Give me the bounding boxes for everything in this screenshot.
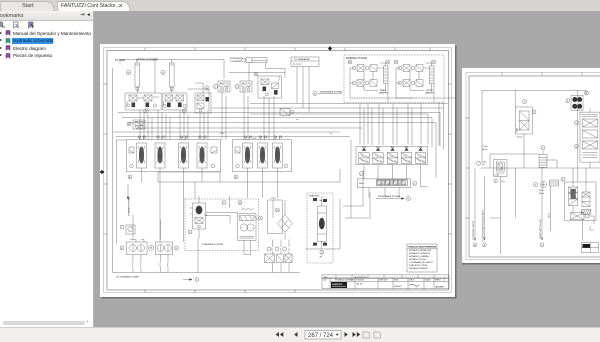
bus line h7 bbox=[113, 131, 340, 133]
frame outer bbox=[466, 72, 600, 259]
filter drops bbox=[273, 240, 290, 273]
balloon 8 bbox=[561, 177, 565, 181]
balloon 8b bbox=[222, 201, 226, 205]
svg-text:TO BRAKE SYSTEM: TO BRAKE SYSTEM bbox=[128, 197, 131, 216]
balloon 21 bbox=[161, 70, 165, 74]
right side verticals bbox=[428, 113, 440, 178]
balloon 11 bbox=[320, 250, 324, 254]
damper group B wires bbox=[396, 68, 459, 98]
pressure gauge circle bbox=[476, 161, 487, 166]
wire damping drops bbox=[388, 84, 444, 150]
main valve bank 1 outer bbox=[127, 140, 221, 172]
svg-text:TO SPREADER: TO SPREADER bbox=[294, 58, 310, 61]
svg-text:29: 29 bbox=[432, 62, 435, 64]
center accumulator bbox=[539, 150, 547, 167]
tank bottom line bbox=[113, 272, 300, 274]
balloon 7 bbox=[541, 145, 545, 149]
bank3 valve 1 bbox=[359, 146, 369, 163]
balloon C2 bbox=[235, 85, 239, 89]
main gray area bbox=[94, 11, 600, 327]
svg-text:COD: COD bbox=[323, 280, 328, 282]
svg-text:HYDRAULIC SCHEMATIC: HYDRAULIC SCHEMATIC bbox=[335, 279, 356, 282]
registration diamond top bbox=[328, 46, 332, 51]
svg-text:G: G bbox=[288, 249, 290, 251]
damper group B valve b2 bbox=[398, 80, 423, 86]
cluster wires bbox=[515, 168, 586, 218]
tiny labels band bbox=[220, 119, 332, 140]
bank3 valve 4 bbox=[401, 146, 411, 163]
svg-text:FROM PUMP TO FLOW: FROM PUMP TO FLOW bbox=[539, 219, 541, 239]
STEERING SYSTEM dashed box bbox=[185, 199, 259, 251]
balloon 22 bbox=[144, 109, 148, 113]
svg-text:OIL HYDRAULIC TANK: OIL HYDRAULIC TANK bbox=[116, 276, 139, 279]
wires lower left bbox=[474, 168, 551, 254]
svg-text:SLEWING EXTENSION: SLEWING EXTENSION bbox=[409, 268, 428, 270]
steering drops bbox=[198, 239, 251, 273]
svg-text:TO JOYSTICK AND SOLENOID VALVE: TO JOYSTICK AND SOLENOID VALVE bbox=[481, 209, 484, 242]
pump drop wires bbox=[133, 255, 168, 263]
bank3 valve 2 bbox=[373, 146, 383, 163]
svg-text:2: 2 bbox=[494, 180, 495, 182]
svg-text:7.5 bar: 7.5 bar bbox=[482, 145, 488, 148]
relief valve RV1 bbox=[515, 107, 532, 168]
notes box bbox=[407, 244, 437, 272]
start tab bbox=[0, 1, 55, 12]
svg-text:26: 26 bbox=[349, 62, 352, 64]
bank3 lower box bbox=[357, 179, 410, 188]
svg-text:TAV./SHEET: TAV./SHEET bbox=[435, 286, 444, 289]
port circle B bbox=[482, 242, 486, 246]
svg-text:a b: a b bbox=[296, 119, 298, 121]
svg-text:Y2: Y2 bbox=[380, 161, 382, 163]
flow meter circle bbox=[539, 180, 559, 195]
damper group A accumulator bbox=[380, 63, 388, 84]
svg-text:TO CONTROL CIRCUIT: TO CONTROL CIRCUIT bbox=[472, 219, 474, 239]
balloon hp bbox=[493, 179, 497, 183]
bus line h4 bbox=[122, 117, 432, 119]
balloon 3 bbox=[565, 98, 569, 102]
corner mark bbox=[590, 226, 594, 230]
bus line h5 bbox=[128, 122, 436, 124]
svg-text:DAMPER: DAMPER bbox=[425, 92, 434, 95]
pump group 2 bbox=[156, 242, 173, 255]
title block bbox=[322, 278, 449, 289]
bus line h1 bbox=[250, 103, 448, 105]
wires bank3 drops bbox=[364, 165, 421, 198]
svg-text:DWG UNIT: DWG UNIT bbox=[379, 280, 388, 282]
wire long vertical bbox=[576, 90, 578, 182]
svg-text:HYDRAULIC LIFTING: HYDRAULIC LIFTING bbox=[409, 258, 427, 261]
balloon 27 bbox=[394, 60, 398, 64]
svg-text:F: F bbox=[280, 249, 282, 251]
filter port circles bbox=[267, 247, 290, 251]
main valve bank 2 outer bbox=[233, 140, 292, 172]
svg-text:38 bar: 38 bar bbox=[359, 182, 364, 185]
svg-text:4=2: 4=2 bbox=[481, 164, 484, 166]
label 7.5 bar bbox=[482, 145, 488, 151]
svg-text:27: 27 bbox=[395, 62, 398, 64]
balloon 1 bbox=[522, 99, 526, 103]
wire bank1 to lower bbox=[142, 168, 278, 198]
balloon C1 bbox=[214, 85, 218, 89]
port circle A bbox=[473, 242, 477, 246]
balloon 23 bbox=[182, 109, 186, 113]
lower valve cluster box bbox=[564, 182, 596, 221]
frame tick marks bbox=[104, 48, 452, 293]
pump group 1 bbox=[127, 240, 148, 255]
hand pump valve bbox=[493, 159, 506, 182]
bank1 end details bbox=[129, 147, 217, 168]
coupling H bbox=[148, 245, 153, 250]
balloon D bbox=[413, 181, 417, 185]
steering wire bbox=[206, 196, 238, 224]
svg-text:45 l/m: 45 l/m bbox=[220, 133, 225, 135]
svg-text:CHK D: CHK D bbox=[409, 280, 415, 282]
main bus line bbox=[480, 167, 600, 169]
valve cluster C2 bbox=[240, 81, 252, 92]
svg-text:Y5: Y5 bbox=[422, 161, 424, 163]
svg-text:SCALE: SCALE bbox=[425, 279, 431, 282]
svg-text:25: 25 bbox=[255, 74, 258, 76]
port circle C bbox=[540, 242, 544, 246]
svg-text:Y4: Y4 bbox=[408, 161, 410, 163]
svg-text:FROM BRAKE SYSTEM: FROM BRAKE SYSTEM bbox=[320, 91, 342, 94]
routing step lines right bbox=[305, 170, 363, 249]
balloon 8 bbox=[188, 230, 192, 234]
wire to extension bbox=[178, 60, 224, 79]
balloon 10 bbox=[275, 208, 279, 212]
damper group A valve a2 bbox=[352, 80, 377, 86]
bus line h6 bbox=[136, 114, 428, 128]
svg-text:EXTENSION: EXTENSION bbox=[230, 58, 243, 60]
svg-text:14 bar: 14 bar bbox=[494, 173, 499, 176]
drain arrow bbox=[183, 278, 199, 282]
gearbox accumulator bbox=[313, 196, 327, 249]
balloon 28 bbox=[386, 60, 390, 64]
svg-text:2: 2 bbox=[140, 263, 142, 267]
balloon C bbox=[360, 172, 364, 176]
balloon B bbox=[234, 175, 238, 179]
svg-text:STEERING SYSTEM: STEERING SYSTEM bbox=[202, 244, 223, 246]
labels 2 2 bbox=[132, 263, 169, 267]
frame outer bbox=[104, 48, 452, 293]
frame ticks bbox=[466, 72, 582, 218]
svg-text:30: 30 bbox=[128, 124, 131, 126]
svg-text:HYDRAULIC EXTENSION: HYDRAULIC EXTENSION bbox=[409, 252, 430, 255]
left frame long wire bbox=[112, 68, 114, 273]
balloon 25 bbox=[254, 72, 258, 76]
balloon 4 bbox=[584, 91, 588, 95]
page 2 bbox=[462, 68, 600, 264]
bank3 lower cartridges bbox=[377, 180, 408, 186]
DAMPING SYSTEM dashed box bbox=[344, 55, 444, 103]
svg-text:FANTUZZI: FANTUZZI bbox=[332, 283, 342, 286]
svg-text:SHEET: SHEET bbox=[435, 280, 441, 282]
GEAR BOX dashed box bbox=[307, 193, 333, 263]
balloon A bbox=[128, 175, 132, 179]
bank1 spool 1 bbox=[137, 136, 147, 168]
svg-text:4/2: 4/2 bbox=[320, 257, 323, 259]
wire verticals spreader bbox=[297, 79, 309, 113]
svg-text:02/L/2007: 02/L/2007 bbox=[394, 286, 402, 288]
label TO BRAKE SYSTEM vertical bbox=[127, 184, 131, 216]
svg-text:2: 2 bbox=[132, 263, 134, 267]
balloon 26 bbox=[348, 60, 352, 64]
balloon 2 bbox=[532, 110, 536, 114]
svg-text:SIGN: SIGN bbox=[394, 280, 399, 282]
bank1 spool 4 bbox=[197, 136, 207, 168]
bank1 spool 3 bbox=[179, 136, 189, 168]
svg-text:THIRD HYDR. LIFTING: THIRD HYDR. LIFTING bbox=[409, 265, 428, 267]
svg-text:FROM BRAKE SYSTEM: FROM BRAKE SYSTEM bbox=[378, 195, 400, 198]
valve cluster C1 bbox=[218, 81, 230, 92]
pump suction lines bbox=[133, 215, 168, 273]
right valve assembly bbox=[580, 108, 600, 168]
balloon 4 bbox=[120, 246, 124, 250]
wire top header line bbox=[120, 60, 178, 94]
bank3 valve 3 bbox=[387, 146, 397, 163]
balloon 7 bbox=[120, 225, 124, 229]
balloon 29 bbox=[432, 60, 436, 64]
svg-text:REAR: REAR bbox=[380, 89, 386, 92]
top tab bar bbox=[0, 0, 600, 12]
bottom toolbar bbox=[0, 327, 600, 342]
filter unit box bbox=[268, 197, 283, 234]
bus line 2 bbox=[490, 154, 557, 168]
frame inner bbox=[469, 76, 600, 257]
svg-text:p t: p t bbox=[330, 132, 332, 135]
bus line h3 bbox=[118, 112, 440, 114]
frame inner bbox=[107, 51, 449, 291]
extension cylinder bbox=[229, 58, 285, 81]
wire bank3 left vertical bbox=[351, 140, 428, 218]
steering orbitrol unit bbox=[190, 196, 208, 239]
svg-text:267 / 724: 267 / 724 bbox=[308, 333, 334, 339]
bus line h8 bbox=[116, 136, 350, 138]
damper group B accumulator bbox=[426, 63, 434, 84]
title block p2 bbox=[581, 242, 598, 252]
balloon 5 bbox=[175, 246, 179, 250]
valve assembly V2 (under cylinder 2) bbox=[162, 93, 187, 110]
bank3 valve 5 bbox=[415, 146, 425, 163]
svg-text:P1 T1 P2: P1 T1 P2 bbox=[293, 64, 302, 66]
manifold under bank1 bbox=[158, 172, 220, 182]
svg-text:E: E bbox=[272, 249, 274, 251]
svg-text:CYLINDER: CYLINDER bbox=[230, 61, 241, 63]
bottom wire bbox=[581, 220, 583, 241]
bookmark list bbox=[0, 0, 93, 342]
svg-text:DAMPING SYSTEM: DAMPING SYSTEM bbox=[346, 57, 367, 60]
svg-text:1 bar: 1 bar bbox=[271, 197, 276, 200]
filter cartridges row bbox=[265, 254, 293, 263]
valve block VB1 (middle tall) bbox=[188, 83, 211, 113]
svg-text:Y1: Y1 bbox=[366, 161, 368, 163]
bus line h2 bbox=[212, 107, 444, 109]
svg-text:HYDRAULIC LOWERING: HYDRAULIC LOWERING bbox=[409, 255, 430, 258]
balloon 8c bbox=[238, 201, 242, 205]
routing rect mid bbox=[195, 169, 340, 199]
FANTUZZI logo bbox=[331, 282, 347, 288]
cluster valve A bbox=[568, 187, 577, 206]
sidebar bbox=[0, 11, 94, 327]
lifting cylinder 1 bbox=[135, 63, 140, 93]
filter diamond bbox=[273, 200, 293, 240]
balloon 30 bbox=[127, 122, 131, 126]
svg-text:HYDRAULIC RETRACTION: HYDRAULIC RETRACTION bbox=[409, 249, 432, 252]
balloon 24 bbox=[205, 86, 209, 90]
registration diamond left bbox=[100, 170, 105, 174]
left frame wire 2 bbox=[117, 140, 127, 244]
valve assembly V1 (under cylinder 1) bbox=[125, 93, 162, 110]
TO SPREADER box bbox=[291, 57, 319, 79]
svg-text:28: 28 bbox=[386, 62, 389, 64]
wires lower drops to tank bbox=[142, 182, 184, 243]
lifting cylinder 2 bbox=[170, 63, 175, 93]
sidebar toolbar icons bbox=[0, 21, 40, 30]
small relief valve RL1 bbox=[133, 120, 145, 129]
active document tab bbox=[56, 1, 130, 13]
svg-text:GEAR BOX: GEAR BOX bbox=[309, 195, 320, 198]
svg-text:35 l/m: 35 l/m bbox=[539, 192, 544, 194]
svg-text:2: 2 bbox=[159, 263, 161, 267]
FROM BRAKE SYSTEM arrow bbox=[313, 91, 342, 96]
svg-text:H: H bbox=[150, 247, 152, 250]
solenoid block top right bbox=[571, 95, 583, 110]
wire drops mid bbox=[222, 92, 274, 140]
bank2 spool 1 bbox=[243, 136, 253, 168]
svg-text:9 bar: 9 bar bbox=[319, 199, 323, 202]
revision strip bbox=[322, 275, 449, 279]
bank2 spool 2 bbox=[258, 136, 268, 168]
damper group A valve a1 bbox=[352, 65, 377, 71]
wire drops right bank bbox=[360, 104, 421, 146]
damper group B valve b1 bbox=[398, 65, 423, 71]
svg-text:A: A bbox=[129, 176, 131, 179]
wire drops group2 bbox=[180, 110, 208, 140]
svg-text:IDRAULIC DATA FOREWORD: IDRAULIC DATA FOREWORD bbox=[409, 246, 437, 249]
damper group A wires bbox=[350, 68, 413, 98]
balloon 5 bbox=[574, 120, 578, 124]
valve cluster C3 bbox=[258, 76, 282, 102]
svg-text:TO SPREADER TEL. SELECT: TO SPREADER TEL. SELECT bbox=[409, 261, 434, 264]
bank1 spool 2 bbox=[155, 136, 165, 168]
svg-text:21 bar: 21 bar bbox=[517, 135, 523, 138]
bank2 spool 3 bbox=[273, 136, 283, 168]
svg-text:CAT. NO: CAT. NO bbox=[356, 283, 363, 286]
svg-text:Y3: Y3 bbox=[394, 161, 396, 163]
small valve mid band bbox=[280, 109, 294, 116]
svg-text:30 l/m: 30 l/m bbox=[482, 148, 488, 150]
balloon 20 bbox=[126, 70, 130, 74]
main valve bank 3 outer bbox=[356, 146, 428, 165]
page 1 bbox=[100, 44, 455, 297]
svg-text:25 l/m: 25 l/m bbox=[539, 190, 544, 192]
sidebar header bbox=[0, 11, 93, 21]
svg-text:DAMPER: DAMPER bbox=[379, 92, 388, 95]
bank2 end details bbox=[235, 147, 288, 168]
cluster hatch band bbox=[581, 209, 591, 214]
pressure gauge G1 bbox=[126, 225, 135, 234]
svg-text:2: 2 bbox=[167, 263, 169, 267]
svg-text:30 l/m: 30 l/m bbox=[548, 212, 550, 217]
cluster valve B bbox=[582, 192, 590, 207]
steering motor/cylinder bbox=[238, 208, 258, 241]
balloon 9 bbox=[533, 182, 537, 186]
balloon 9 bbox=[259, 216, 263, 220]
svg-text:L R: L R bbox=[205, 215, 208, 217]
balloon 6 bbox=[574, 144, 578, 148]
top bus wire bbox=[482, 90, 586, 161]
cluster bottom valve bbox=[570, 212, 594, 224]
svg-text:TITLE/DIS: TITLE/DIS bbox=[356, 280, 365, 282]
FROM BRAKE SYSTEM lower bbox=[376, 195, 411, 201]
sidebar horizontal scrollbar bbox=[3, 321, 85, 325]
wire drops group1 bbox=[140, 110, 170, 140]
svg-text:10: 10 bbox=[276, 210, 279, 212]
